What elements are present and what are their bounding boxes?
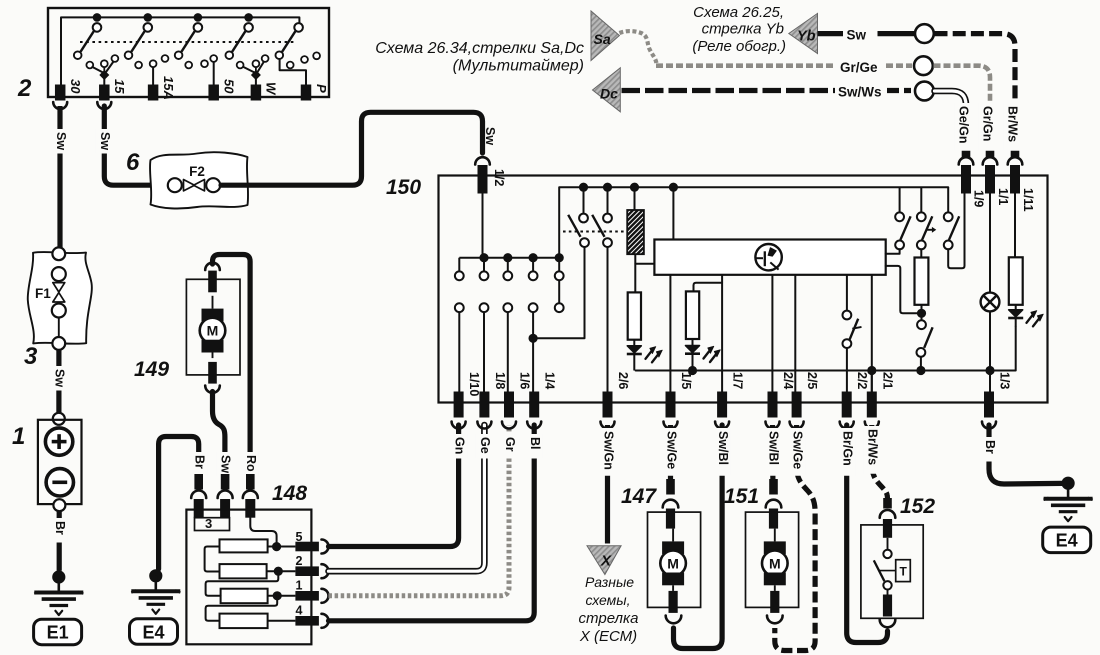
svg-text:148: 148 <box>272 482 307 505</box>
wire Gr/Gn to pin 1/1 <box>934 66 991 146</box>
svg-text:4: 4 <box>296 604 303 618</box>
internal top bus of 150 <box>559 187 948 258</box>
svg-text:Схема 26.34,стрелки Sa,Dc: Схема 26.34,стрелки Sa,Dc <box>375 40 584 57</box>
switch contact S3 in block 2 <box>194 23 203 32</box>
svg-text:X: X <box>600 553 612 570</box>
pin 1/2 of 150 <box>475 157 490 164</box>
svg-text:Gn: Gn <box>452 437 466 454</box>
wire Sw/Ge from pin 1/5 to motor 147 <box>668 425 673 481</box>
wire Br/Ws to pin 1/11 <box>935 34 1016 146</box>
stationary contacts block 2 <box>86 62 93 69</box>
fuse F1 element <box>52 247 65 260</box>
resistor R2 in 148 <box>220 564 267 578</box>
resistor chain 3 in 150 <box>1009 257 1023 305</box>
switch T1 in 150 <box>895 212 904 221</box>
svg-text:стрелка Yb: стрелка Yb <box>702 21 784 38</box>
switch trio stub 2 <box>920 187 922 212</box>
wire Sw from terminal 15 to fuse F2 <box>104 106 167 185</box>
switch contact S1 in block 2 <box>93 23 102 32</box>
wire Sw/Gn from pin 2/6 to ECM <box>605 425 610 544</box>
wire link tap1 to R4 <box>206 596 278 621</box>
svg-text:Sw/Ws: Sw/Ws <box>838 85 882 100</box>
svg-text:1/10: 1/10 <box>467 372 481 396</box>
resistor below T2 <box>915 258 929 305</box>
control unit 150 body <box>439 176 1048 403</box>
svg-text:2/1: 2/1 <box>880 372 894 389</box>
svg-text:Sw/Gn: Sw/Gn <box>601 431 615 470</box>
svg-text:1/6: 1/6 <box>518 372 532 389</box>
wire bus to pin 1/3 <box>989 371 991 392</box>
node bus dot at 248.6 <box>244 13 253 22</box>
terminal 30 <box>55 85 65 101</box>
connector below terminal 15 <box>97 102 111 109</box>
arrow Dc <box>593 68 621 112</box>
svg-text:стрелка: стрелка <box>579 610 639 627</box>
pin 2/1 of 150 <box>867 392 877 418</box>
switch trio stub 3 <box>947 187 949 212</box>
resistor chain 2 in 150 <box>686 291 699 339</box>
wire timer to pin 2/4 <box>771 275 773 392</box>
wire Sw/Ge pin 2/5 to motor 151 bottom <box>775 425 815 651</box>
wire Gr from 148 pin 1 to 150 pin 1/6 <box>329 425 510 596</box>
relay switch A in 150 <box>583 187 585 213</box>
wire timer to bus and pin 2/1 <box>871 275 873 392</box>
wire Ro to resistor chain <box>250 518 276 547</box>
wire branch 1/4 to relay switch A <box>533 247 584 338</box>
svg-text:6: 6 <box>126 149 140 176</box>
terminal W wire <box>255 77 257 85</box>
svg-text:2: 2 <box>296 554 303 568</box>
svg-text:E4: E4 <box>142 622 164 642</box>
svg-text:2/5: 2/5 <box>805 372 819 389</box>
motor 147 <box>648 512 701 607</box>
svg-text:F1: F1 <box>35 286 51 301</box>
switch 152 connector bottom <box>883 595 892 617</box>
wire Br from pin 1/3 to ground E4 <box>989 425 1062 484</box>
motor 151 <box>746 512 799 607</box>
svg-text:Br/Gn: Br/Gn <box>841 431 855 466</box>
wire internal bus of switch 2 <box>61 17 299 85</box>
pin 1/7 of 150 <box>717 392 727 418</box>
svg-text:1: 1 <box>12 423 25 450</box>
node bus dot at 97 <box>93 13 102 22</box>
motor 151 connector bottom <box>770 591 779 613</box>
pin 1/3 of 150 <box>984 392 994 418</box>
LED 1 in 150 <box>627 346 641 353</box>
svg-text:151: 151 <box>724 485 759 508</box>
wire timer to pin 1/7 <box>721 275 723 392</box>
switch 152 connector top <box>883 498 892 509</box>
LED 3 in 150 <box>1009 310 1023 317</box>
svg-text:Gr: Gr <box>503 437 517 452</box>
wire Br from unit 148 to ground E4 <box>159 437 199 570</box>
svg-text:2/6: 2/6 <box>616 372 630 389</box>
svg-text:Sw: Sw <box>483 127 497 145</box>
svg-text:Sw/Ge: Sw/Ge <box>790 431 804 469</box>
resistor R4 in 148 <box>220 614 268 629</box>
svg-text:Br: Br <box>983 440 997 454</box>
arrow X to ECM <box>587 546 621 575</box>
svg-text:1/4: 1/4 <box>543 372 557 389</box>
svg-text:2/2: 2/2 <box>855 372 869 389</box>
node resistor tap 5 <box>272 542 281 551</box>
svg-text:15: 15 <box>112 79 127 94</box>
svg-text:Ge/Gn: Ge/Gn <box>957 106 971 144</box>
svg-text:Sw: Sw <box>98 132 112 150</box>
switch below resistor in 150 <box>921 313 923 320</box>
fuse F2 element <box>168 178 182 192</box>
svg-text:30: 30 <box>68 79 83 94</box>
svg-text:Sw: Sw <box>53 369 67 387</box>
link 3 inside 148 <box>195 518 230 531</box>
svg-text:W: W <box>264 82 279 96</box>
node junction on pin 1/4 wire <box>529 334 538 343</box>
svg-text:Разные: Разные <box>585 574 634 590</box>
svg-text:Ro: Ro <box>244 455 258 472</box>
relay switch B in 150 <box>607 187 609 213</box>
pin 1/4 of 150 <box>529 392 539 418</box>
pin 4 of 148 <box>295 616 319 626</box>
contact bus in 150 <box>459 257 559 259</box>
wire Sw from Yb <box>818 31 844 36</box>
wire T1 to timer right edge <box>886 249 900 254</box>
wire bus to pin 2/1 <box>871 371 873 392</box>
wire top bus to timer <box>672 187 674 239</box>
motor 149 <box>186 279 240 375</box>
node bus dot at 197.9 <box>194 13 203 22</box>
pin 2/5 of 150 <box>792 392 802 418</box>
pin 1/10 of 150 <box>454 392 464 418</box>
switch contact S5 in block 2 <box>294 23 303 32</box>
relay coil in 150 <box>627 210 644 254</box>
timer module in 150 <box>654 240 885 275</box>
resistor R1 in 148 <box>220 539 268 552</box>
svg-text:50: 50 <box>222 79 237 94</box>
terminal P wire <box>280 60 306 85</box>
connector below terminal 30 <box>53 102 67 109</box>
node resistor tap 2 <box>274 567 283 576</box>
svg-text:149: 149 <box>134 358 169 381</box>
svg-text:Yb: Yb <box>797 29 816 45</box>
svg-text:M: M <box>769 555 781 571</box>
svg-text:Sw: Sw <box>847 28 867 43</box>
switch 152 body <box>861 525 923 618</box>
wire Gr/Ge from Sa <box>656 63 836 68</box>
svg-text:E4: E4 <box>1056 531 1078 551</box>
terminal P <box>301 85 312 101</box>
wire timer to pin 1/5 <box>669 275 671 392</box>
wire Br from battery to ground E1 <box>57 511 62 571</box>
svg-text:3: 3 <box>205 516 212 531</box>
svg-text:Sw: Sw <box>219 455 233 473</box>
svg-text:2/4: 2/4 <box>781 372 795 389</box>
fuse F1 housing <box>28 252 92 344</box>
svg-text:Br: Br <box>53 521 67 535</box>
ground E1 <box>52 570 65 583</box>
switch T2 in 150 <box>917 212 926 221</box>
pin 2/6 of 150 <box>603 392 613 418</box>
wire pin 1/11 to resistor chain 3 <box>1014 194 1016 258</box>
arrow Sa <box>591 11 619 61</box>
svg-text:1/11: 1/11 <box>1021 188 1035 212</box>
resistor chain 1 in 150 <box>628 292 641 339</box>
svg-text:1/3: 1/3 <box>998 372 1012 389</box>
terminal 15A <box>148 85 159 101</box>
pin 2/2 of 150 <box>842 392 852 418</box>
svg-text:Схема 26.25,: Схема 26.25, <box>693 4 784 21</box>
pin 2/4 of 150 <box>768 392 778 418</box>
connector on wire Gr/Ge <box>914 56 933 75</box>
terminal 15 wire <box>103 77 105 85</box>
svg-text:(Реле обогр.): (Реле обогр.) <box>692 38 786 55</box>
wire Ro from motor 149 to unit 148 <box>213 255 251 473</box>
relay contact bank in 150 <box>458 258 460 272</box>
wire coil bottom junction <box>635 254 654 264</box>
svg-text:5: 5 <box>296 530 303 544</box>
mechanical link dotted in 150 <box>563 231 627 233</box>
pin 1/9 of 150 <box>962 148 971 158</box>
wire pin 1/1 to lamp <box>989 194 991 293</box>
ignition switch 2 body <box>48 8 329 97</box>
pin 1/5 of 150 <box>666 392 676 418</box>
wire branch to resistor chain 2 <box>694 283 723 292</box>
wire Sw/Ws from Dc <box>622 88 836 93</box>
svg-text:схемы,: схемы, <box>586 592 631 608</box>
svg-text:X (ЕСМ): X (ЕСМ) <box>579 628 637 645</box>
svg-text:Gr/Ge: Gr/Ge <box>840 60 878 75</box>
ground E4 right <box>1062 477 1075 490</box>
svg-text:Sw/Ge: Sw/Ge <box>664 431 678 469</box>
resistor R3 in 148 <box>221 589 268 604</box>
wire Sw from terminal 30 <box>57 106 62 248</box>
svg-text:1/1: 1/1 <box>996 188 1010 205</box>
node bus dot at 147.8 <box>144 13 153 22</box>
pin 1/11 of 150 <box>1011 148 1020 158</box>
svg-text:1/2: 1/2 <box>492 169 506 186</box>
node below resistor <box>917 309 926 318</box>
wire T2 to resistor <box>920 249 922 257</box>
svg-text:T: T <box>900 565 908 579</box>
LED 2 in 150 <box>686 346 700 353</box>
pin 1/8 of 150 <box>479 392 489 418</box>
svg-text:Br: Br <box>193 455 207 469</box>
svg-text:Bl: Bl <box>528 437 542 450</box>
terminal W <box>251 85 262 101</box>
svg-text:1/7: 1/7 <box>731 372 745 389</box>
wire Sw/Bl pin 1/7 to motor 147 bottom <box>674 425 723 649</box>
svg-text:Sw/Bl: Sw/Bl <box>766 431 780 465</box>
internal bottom bus of 150 <box>636 327 1016 371</box>
thermal switch in 152 <box>887 538 889 550</box>
svg-text:M: M <box>667 555 679 571</box>
wire Ge from 148 pin 2 to 150 pin 1/8 <box>329 425 485 571</box>
wire Sw from fuse F1 to battery 1 <box>56 350 61 413</box>
wire resistor junction to timer right edge <box>886 266 922 313</box>
wire Sw from fuse F2 to unit 150 pin 1/2 <box>221 112 483 185</box>
svg-text:F2: F2 <box>189 164 205 179</box>
wire Sw/Bl from pin 2/4 to motor 151 <box>770 425 776 481</box>
motor 151 connector top <box>769 479 778 495</box>
switch T3 in 150 <box>944 212 953 221</box>
unit 148 body <box>186 510 311 645</box>
switch trio stub 1 <box>899 187 901 212</box>
arrow Yb <box>789 13 818 53</box>
svg-text:1/8: 1/8 <box>493 372 507 389</box>
connector on wire Sw <box>915 24 934 43</box>
svg-text:152: 152 <box>900 495 935 518</box>
unit 148 connector pins Br Sw Ro <box>194 474 203 490</box>
wire pin 1/2 to contact bus <box>482 194 484 258</box>
svg-text:Dc: Dc <box>600 86 618 102</box>
svg-text:(Мультитаймер): (Мультитаймер) <box>453 58 584 75</box>
terminal 15A wire <box>152 67 154 85</box>
clock symbol <box>755 244 781 270</box>
wire Sa squiggle <box>619 31 656 63</box>
wire pin 1/9 to switch T3 <box>948 194 964 269</box>
svg-text:147: 147 <box>621 485 657 508</box>
wire link resistors R1-R2 <box>205 547 220 572</box>
fuse F2 housing <box>150 152 248 208</box>
wire timer to pin 2/5 <box>794 275 796 392</box>
pin 1/1 of 150 <box>986 148 995 158</box>
pin 5 of 148 <box>295 542 319 552</box>
closed contact column in 150 <box>558 258 560 272</box>
svg-text:1/9: 1/9 <box>972 190 986 207</box>
connector on wire Sw/Ws <box>915 82 934 101</box>
terminal 15 <box>99 85 110 101</box>
lamp in 150 <box>981 293 1000 312</box>
wire switch B to pin 2/6 <box>607 247 609 392</box>
svg-text:E1: E1 <box>47 623 69 643</box>
wire Br/Ws from pin 2/1 to switch 152 top <box>872 425 888 499</box>
svg-text:P: P <box>314 84 329 93</box>
mechanical link dotted line block 2 <box>80 41 294 43</box>
svg-text:15A: 15A <box>161 76 176 100</box>
svg-text:3: 3 <box>24 343 38 370</box>
svg-text:Gr/Gn: Gr/Gn <box>981 106 995 141</box>
wire Br/Gn from pin 2/2 to switch 152 bottom <box>847 425 888 643</box>
svg-text:Ge: Ge <box>478 437 492 454</box>
motor 147 connector bottom <box>669 591 678 613</box>
wire link tap2 to R3 <box>206 571 279 596</box>
motor 147 connector top <box>666 479 675 495</box>
svg-text:Br/Ws: Br/Ws <box>1006 106 1020 142</box>
wire Sw from motor 149 to unit 148 <box>213 392 225 473</box>
battery 1 <box>53 413 65 425</box>
wire Gn from 148 pin 5 to 150 pin 1/10 <box>329 425 459 547</box>
switch above pin 2/2 <box>843 311 852 320</box>
terminal 50 <box>208 85 219 101</box>
wire Bl from 148 pin 4 to 150 pin 1/4 <box>329 425 535 621</box>
svg-text:Sw: Sw <box>54 132 68 150</box>
svg-text:Sa: Sa <box>594 31 611 47</box>
svg-text:M: M <box>207 323 219 339</box>
pin 2 of 148 <box>295 566 319 576</box>
svg-text:Br/Ws: Br/Ws <box>866 429 880 465</box>
switch contact S4 in block 2 <box>244 23 253 32</box>
wire timer to switch above pin 2/2 <box>846 275 848 311</box>
pin 1/6 of 150 <box>504 392 514 418</box>
node resistor tap 1 <box>273 591 282 600</box>
svg-text:Sw/Bl: Sw/Bl <box>716 431 730 465</box>
ground E4 left <box>149 569 162 582</box>
terminal 50 wire <box>213 62 215 85</box>
switch contact S2 in block 2 <box>144 23 153 32</box>
wire Ge/Gn to pin 1/9 <box>935 91 967 146</box>
svg-text:1: 1 <box>296 579 303 593</box>
svg-text:150: 150 <box>386 176 421 199</box>
svg-text:2: 2 <box>17 75 32 102</box>
pin 1 of 148 <box>295 591 319 601</box>
